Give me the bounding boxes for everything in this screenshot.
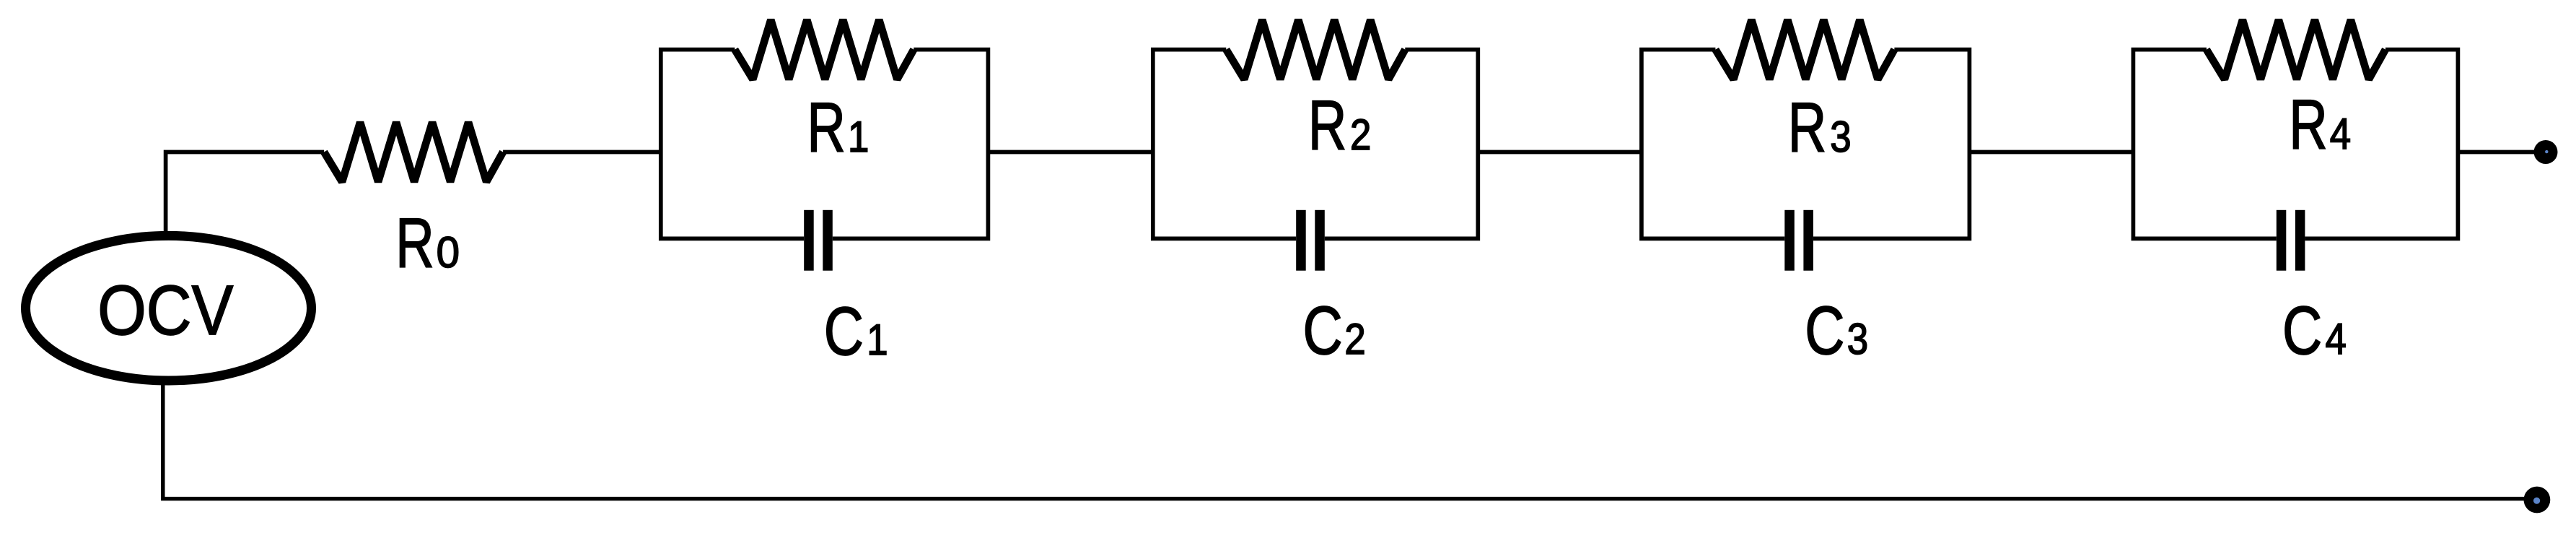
resistor R1 [735,19,914,79]
svg-text:0: 0 [437,227,460,277]
value label R0 [395,204,434,282]
wire from RC block 3 to RC block 4 [1969,150,2133,155]
svg-text:C: C [824,293,864,370]
voltage source OCV [26,235,312,381]
value label OCV [97,270,233,350]
svg-text:3: 3 [1830,113,1851,161]
wire from RC block 1 to RC block 2 [988,150,1152,155]
svg-text:R: R [2289,87,2328,165]
capacitor C4 [2277,210,2287,271]
wire from R0 to RC block 1 [503,150,661,155]
resistor R3 [1715,19,1894,79]
wire loop of RC block 2 [1153,50,1478,239]
resistor R4 [2207,19,2386,79]
value label C4 [2282,292,2322,369]
value label C2 [1303,292,1343,369]
svg-text:C: C [2282,292,2322,369]
wire from OCV positive terminal to R0 [166,152,325,234]
resistor R0 [324,122,503,181]
svg-text:R: R [1308,87,1347,165]
svg-text:R: R [807,90,846,168]
resistor R2 [1226,19,1405,79]
wire from RC block 4 to positive terminal [2458,150,2536,155]
capacitor C3 [1784,210,1795,271]
capacitor C1 [804,210,814,271]
value label R2 [1308,87,1347,165]
svg-text:2: 2 [1350,110,1371,159]
value label C1 [824,293,864,370]
value label R4 [2289,87,2328,165]
svg-text:R: R [1788,90,1827,168]
capacitor C2 [1296,210,1306,271]
value label R1 [807,90,846,168]
value label C3 [1805,292,1844,369]
wire loop of RC block 4 [2133,50,2458,239]
wire return path from OCV negative terminal to negative output terminal [163,383,2534,499]
svg-text:C: C [1303,292,1343,369]
svg-text:C: C [1805,292,1844,369]
svg-text:4: 4 [2330,110,2351,158]
svg-text:1: 1 [867,316,888,364]
value label R3 [1788,90,1827,168]
svg-text:2: 2 [1344,315,1365,363]
svg-text:4: 4 [2326,315,2347,363]
node positive output terminal [2534,140,2558,164]
wire loop of RC block 1 [661,50,989,239]
svg-text:OCV: OCV [97,270,233,350]
svg-text:3: 3 [1847,315,1868,363]
svg-text:R: R [395,204,434,282]
wire from RC block 2 to RC block 3 [1478,150,1642,155]
wire loop of RC block 3 [1642,50,1970,239]
svg-text:1: 1 [848,113,869,161]
node negative output terminal [2524,487,2551,513]
